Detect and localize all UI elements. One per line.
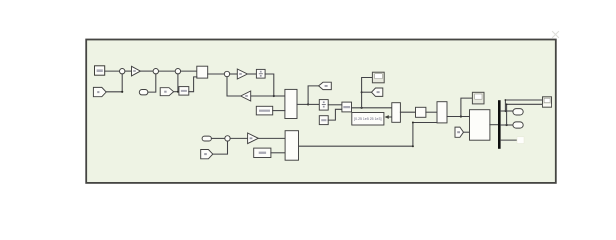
wire bar to terminator WS xyxy=(501,139,517,141)
constant block C1 xyxy=(256,106,272,115)
wire SQ2 to block T3 xyxy=(426,111,437,113)
block MOD xyxy=(342,102,352,112)
constant oval O1 xyxy=(139,90,148,95)
wire T3 output to big block BB xyxy=(447,116,470,118)
big block BB xyxy=(470,110,490,141)
constant oval O3 xyxy=(202,136,211,141)
wire Z2 riser to MOD lower input xyxy=(328,109,342,120)
wire riser to scope SC2 xyxy=(461,98,473,116)
wire P1 up to S1 xyxy=(106,74,122,92)
wire C1 to T1 lower input xyxy=(273,110,285,112)
wire G3 to S4 bottom xyxy=(227,77,241,96)
source block Z2 xyxy=(319,116,328,125)
sum junction S4 xyxy=(224,71,229,76)
wire S1 to gain G1 xyxy=(125,70,132,72)
gain G2 xyxy=(237,69,247,79)
wire S3 to block B1 xyxy=(181,70,197,72)
wire MOD output to block T2 xyxy=(352,107,392,109)
goto tag P2 xyxy=(160,88,173,96)
wire scope tap A to SC3 upper input xyxy=(505,100,542,111)
sum junction S1 xyxy=(120,69,125,74)
wire P5 to BB lower input xyxy=(464,131,470,133)
wire S3 down to K1 net xyxy=(177,74,179,92)
junction dot riser tap xyxy=(361,91,363,93)
feedback node junction dot xyxy=(273,95,275,97)
wire scope tap B to SC3 lower input xyxy=(507,104,543,125)
wire T2 into W1 with arrowhead xyxy=(385,115,392,119)
subsystem T1 xyxy=(285,89,297,118)
polynomial block W1 xyxy=(352,113,384,126)
gain G3 (left pointing) xyxy=(241,91,251,101)
wire C2 to TB lower input xyxy=(271,152,285,154)
wire node to gain G3 input xyxy=(251,95,274,97)
wire riser to scope SC1 xyxy=(362,78,373,108)
wire O3 to sum S5 xyxy=(211,137,224,139)
dot tap B corner xyxy=(506,103,508,105)
junction dot after T1 xyxy=(307,103,309,105)
scope SC3 xyxy=(543,97,552,107)
block T3 xyxy=(437,102,447,123)
constant block C2 xyxy=(254,148,271,157)
wire S5 to gain G4 xyxy=(230,137,247,139)
block T2 xyxy=(392,103,401,123)
scope SC1 xyxy=(372,72,384,83)
wire O1 up to S2 xyxy=(148,74,156,92)
demux bus bar xyxy=(498,100,501,149)
sum junction S3 xyxy=(175,69,180,74)
outport O5 xyxy=(513,122,523,128)
wire K1 riser to B1 lower input xyxy=(189,77,197,92)
wire P2 to block K1 xyxy=(174,91,179,93)
wire node to subsystem T1 xyxy=(274,95,285,97)
wire bar to outport O5 xyxy=(501,124,513,126)
wire bottom subsystem TB output riser to T3 lower input xyxy=(299,123,438,147)
discrete block Z1 xyxy=(319,100,328,111)
sum junction S2 xyxy=(153,69,158,74)
wire tap to from-tag P4 xyxy=(362,91,372,93)
junction dot at P1 corner xyxy=(121,91,123,93)
wire T2 to block SQ2 xyxy=(400,111,415,113)
wire S4 to gain G2 xyxy=(230,73,238,75)
faint artifact mark above top-right corner xyxy=(553,32,559,38)
wire junction up to from-tag P3 xyxy=(308,86,319,105)
integrator I1 xyxy=(256,69,265,78)
wire BB to bus bar xyxy=(490,124,498,126)
wire T1 output to junction xyxy=(297,103,308,105)
dot tap A corner xyxy=(505,99,507,101)
junction dot on O4 wire xyxy=(505,110,507,112)
wire G2 to integrator I1 xyxy=(247,73,256,75)
wire SRC1 to sum S1 xyxy=(105,70,120,72)
wire G1 to sum S2 xyxy=(140,70,153,72)
subsystem TB xyxy=(285,131,298,161)
from tag P4 (point left) xyxy=(372,88,383,96)
wire bar to outport O4 xyxy=(501,110,513,112)
gain G4 xyxy=(248,133,259,144)
junction dot S3 drop xyxy=(177,91,179,93)
wire Z1 to block MOD xyxy=(328,104,342,106)
wire P6 up to S5 xyxy=(213,141,228,154)
wire I1 right then down to feedback node xyxy=(265,74,274,96)
model canvas panel xyxy=(86,40,556,183)
wire G4 to subsystem TB xyxy=(258,137,285,139)
block B1 xyxy=(197,66,208,78)
gain G1 xyxy=(132,66,141,76)
goto tag P6 xyxy=(201,150,213,159)
wire B1 to sum S4 xyxy=(208,73,225,75)
goto tag P1 xyxy=(93,87,106,96)
goto tag P5 xyxy=(455,127,464,137)
source block SRC1 xyxy=(95,66,105,75)
block SQ2 xyxy=(416,107,426,117)
junction dot on O5 wire xyxy=(506,124,508,126)
from tag P3 (point left) xyxy=(319,82,332,89)
sum junction S5 xyxy=(225,136,230,141)
outport O4 xyxy=(513,109,523,115)
wire S2 to sum S3 xyxy=(159,70,176,72)
wire junction to block Z1 xyxy=(308,103,319,105)
svg-text:[0.25 1e5 25 1e3]: [0.25 1e5 25 1e3] xyxy=(354,117,381,121)
block K1 xyxy=(179,87,189,96)
corner dot riser top xyxy=(412,122,414,124)
junction dot after T3 xyxy=(460,115,462,117)
scope SC2 xyxy=(472,92,484,104)
terminator WS xyxy=(517,137,524,144)
junction dot on MOD output xyxy=(361,107,363,109)
corner dot on riser xyxy=(412,145,414,147)
